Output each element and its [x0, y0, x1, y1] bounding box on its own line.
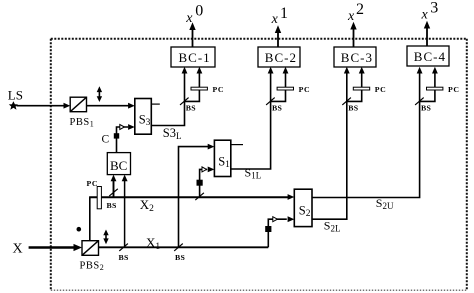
- svg-text:BS: BS: [348, 104, 358, 113]
- svg-text:BS: BS: [175, 253, 185, 262]
- svg-text:BC-3: BC-3: [341, 50, 373, 65]
- svg-text:LS: LS: [8, 87, 23, 102]
- svg-text:x: x: [185, 11, 193, 26]
- solid arrowhead into S3: [128, 124, 135, 130]
- svg-text:X2: X2: [140, 197, 154, 214]
- svg-text:C: C: [102, 134, 110, 146]
- svg-text:0: 0: [195, 2, 203, 19]
- beam splitter BS on X1 for S1 tap: [174, 244, 183, 251]
- wire BS branch to PC stub (BC-4): [420, 72, 435, 102]
- wire PBS1 to S3: [87, 105, 130, 107]
- wire BS branch to PC stub (BC-1): [185, 72, 200, 102]
- svg-text:BS: BS: [421, 104, 431, 113]
- S3 upper output stub: [151, 103, 160, 105]
- open arrowhead on C wire: [120, 125, 125, 130]
- wire X1 tap to BC right input: [124, 180, 126, 247]
- svg-text:BS: BS: [186, 104, 196, 113]
- svg-text:X1: X1: [146, 235, 160, 252]
- svg-text:PBS2: PBS2: [80, 261, 105, 273]
- svg-text:S3L: S3L: [163, 126, 182, 141]
- output arrow x3: [426, 27, 428, 46]
- dashed border frame bottom: [51, 289, 467, 291]
- output arrow x2: [353, 28, 355, 47]
- svg-text:BC-4: BC-4: [414, 49, 446, 64]
- control marker square C: [114, 133, 119, 138]
- beam splitter BS on BC-1 left line: [180, 98, 189, 105]
- wire PBS2 up to X2 bus: [89, 197, 91, 240]
- wire BC output C to S3: [117, 127, 129, 153]
- svg-text:X: X: [13, 242, 23, 257]
- svg-text:3: 3: [430, 0, 438, 16]
- svg-text:BC-2: BC-2: [265, 50, 297, 65]
- beam splitter BS on BC-2 left line: [266, 98, 275, 105]
- svg-text:2: 2: [356, 1, 364, 18]
- wire S2 lower output S2L to BC-3: [312, 72, 347, 220]
- wire LS to PBS1: [17, 105, 65, 107]
- bus X2: [89, 196, 288, 198]
- polarization controller PC (BC-1): [191, 87, 207, 90]
- svg-text:BS: BS: [119, 253, 129, 262]
- svg-text:BC: BC: [110, 158, 127, 173]
- switch S3: [135, 99, 152, 135]
- svg-text:PBS1: PBS1: [70, 117, 95, 129]
- S1 upper output stub: [231, 144, 243, 146]
- svg-text:S2U: S2U: [376, 196, 394, 211]
- switch S1: [214, 140, 230, 176]
- wire X1 tap to S1 upper input: [179, 147, 209, 248]
- wire S1 lower output S1L to BC-2: [231, 72, 271, 170]
- polarization controller PC (BC-3): [353, 87, 369, 90]
- combiner BC-1: [171, 47, 215, 67]
- open arrowhead on S2 control: [273, 217, 278, 222]
- beam splitter BS on BC-4 left line: [415, 98, 424, 105]
- control generator BC: [107, 153, 130, 175]
- solid arrowhead into S1: [208, 167, 215, 173]
- wire X1 end to S2 control: [268, 219, 287, 247]
- dashed border frame right: [466, 39, 468, 290]
- PBS2: [82, 241, 99, 256]
- svg-text:BS: BS: [272, 104, 282, 113]
- wire S2 upper output S2U to BC-4: [312, 72, 420, 198]
- control marker square S1: [197, 180, 203, 186]
- wire bus tap to BC left input: [113, 180, 115, 197]
- svg-text:PC: PC: [87, 179, 99, 188]
- svg-text:x: x: [271, 12, 279, 27]
- svg-text:BC-1: BC-1: [179, 50, 211, 65]
- svg-text:S1L: S1L: [245, 166, 262, 181]
- wire BS branch to PC stub (BC-3): [347, 72, 362, 102]
- combiner BC-2: [258, 47, 300, 67]
- output arrow x1: [277, 32, 279, 48]
- polarization controller PC (BC-2): [277, 87, 293, 90]
- dashed border frame top: [51, 38, 467, 40]
- beam splitter BS on BC-3 left line: [342, 98, 351, 105]
- beam splitter BS on X2 bus for S1 control: [195, 193, 204, 200]
- svg-text:PC: PC: [375, 85, 387, 94]
- solid arrowhead into S2: [288, 216, 295, 222]
- beam splitter BS on BC right input: [119, 244, 128, 251]
- wire S3 lower output to BC-1: [151, 72, 184, 126]
- vertical polarization arrow after PBS2: [103, 230, 108, 245]
- combiner BC-4: [407, 46, 449, 66]
- line X1: [99, 246, 269, 248]
- svg-text:x: x: [421, 7, 429, 22]
- svg-text:S2L: S2L: [324, 218, 341, 233]
- input arrow X: [29, 246, 74, 248]
- svg-text:PC: PC: [448, 85, 460, 94]
- dashed border frame left: [50, 39, 52, 290]
- svg-text:PC: PC: [299, 85, 311, 94]
- wire bus tap to S1 control: [200, 169, 207, 196]
- vertical polarization arrow after PBS1: [97, 86, 102, 102]
- wire BS branch to PC stub (BC-2): [271, 72, 286, 102]
- polarization dot marker: [77, 227, 82, 232]
- light source star LS: [9, 101, 18, 109]
- polarization controller PC (BC-4): [427, 87, 443, 90]
- svg-text:x: x: [347, 9, 355, 24]
- output arrow x0: [192, 29, 194, 48]
- polarization controller PC on X2 bus: [97, 187, 101, 209]
- svg-text:BS: BS: [107, 201, 117, 210]
- combiner BC-3: [334, 47, 376, 67]
- PBS1: [70, 97, 86, 112]
- switch S2: [294, 189, 312, 226]
- beam splitter BS on BC left input: [109, 189, 118, 196]
- svg-text:1: 1: [280, 5, 288, 22]
- open arrowhead on S1 control: [202, 167, 207, 172]
- svg-text:PC: PC: [213, 85, 225, 94]
- control marker square S2: [265, 226, 271, 232]
